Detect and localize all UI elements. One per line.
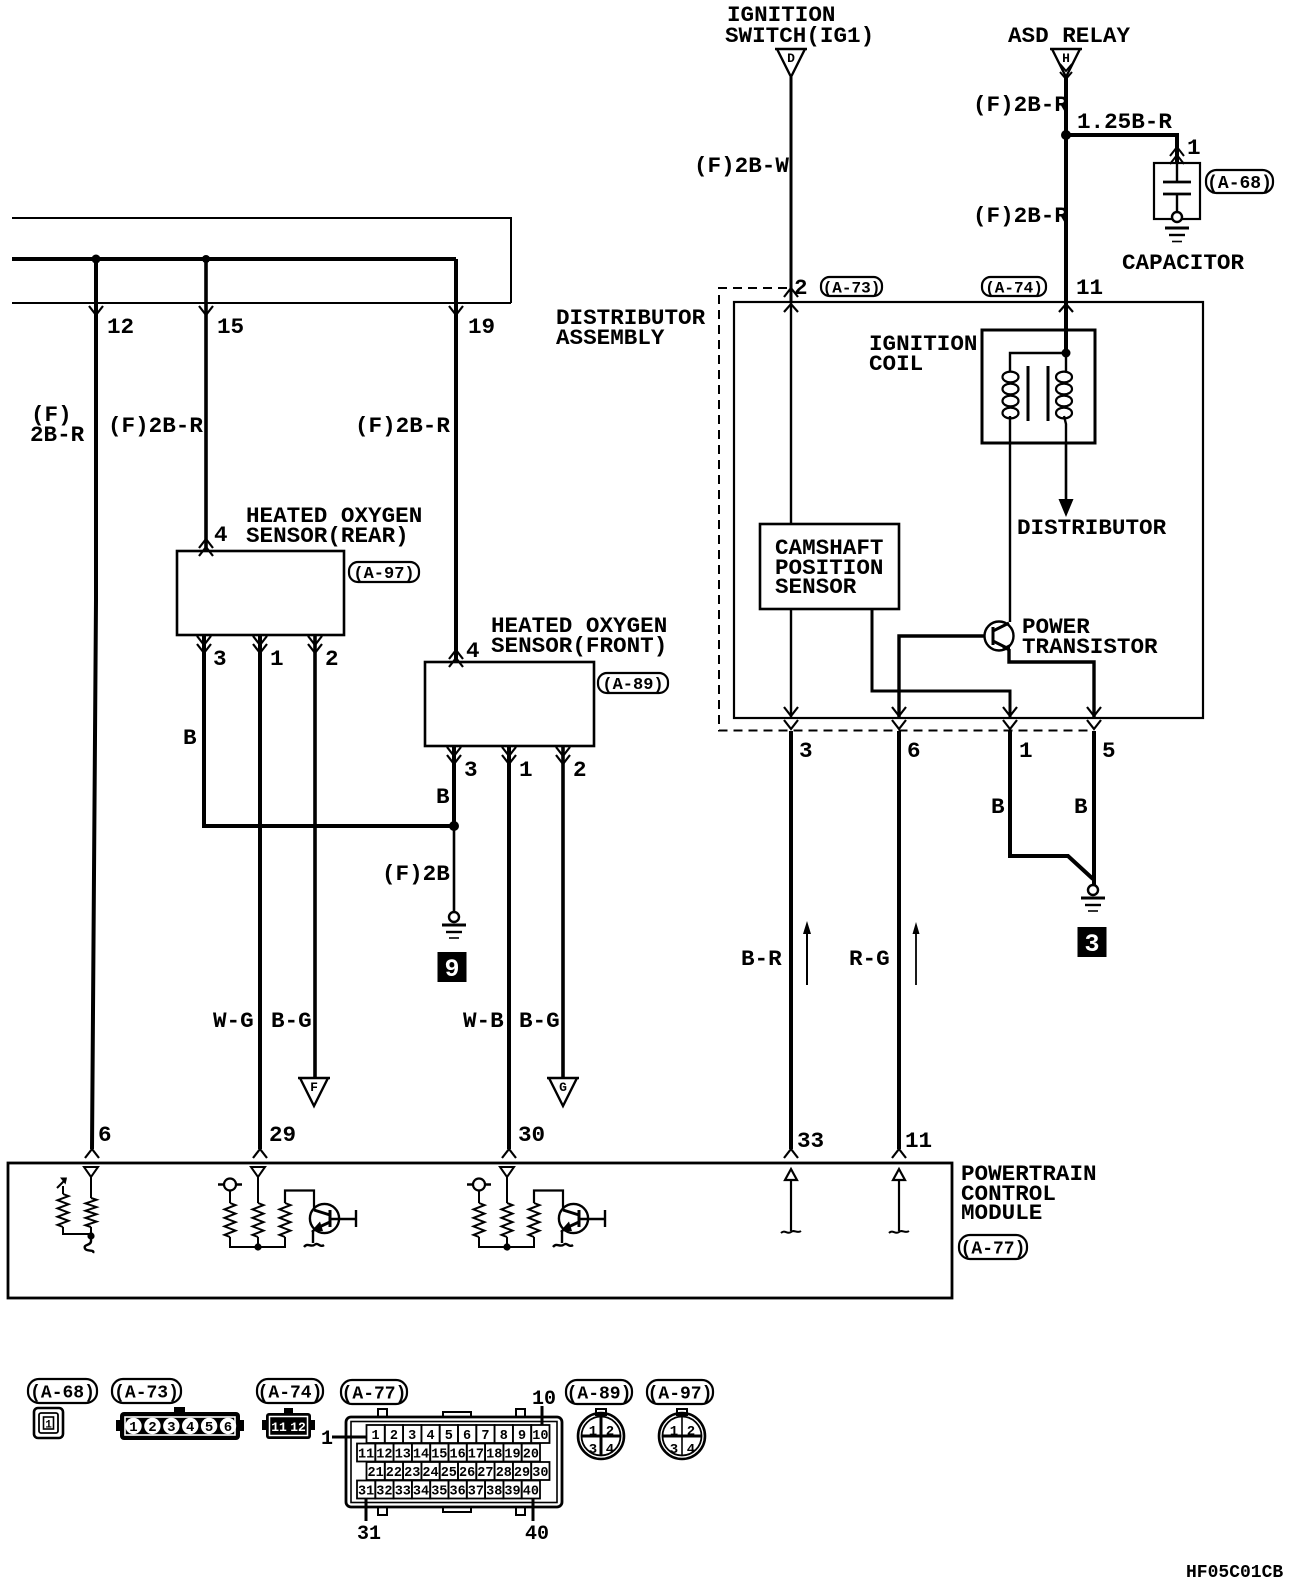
svg-text:SENSOR(REAR): SENSOR(REAR) [246, 523, 409, 549]
connector label A-73 bottom [112, 1379, 181, 1403]
node junction dot 29 [254, 1243, 261, 1250]
svg-text:6: 6 [98, 1122, 112, 1148]
connector triangle D ignition switch [775, 49, 807, 77]
svg-text:30: 30 [518, 1122, 545, 1148]
node junction dot B wires [449, 821, 459, 831]
svg-text:2: 2 [148, 1420, 156, 1436]
svg-text:SWITCH(IG1): SWITCH(IG1) [725, 23, 874, 49]
ground symbol 9 [442, 912, 466, 938]
svg-text:(A-73): (A-73) [823, 279, 881, 297]
PCM pin 29 internal triangle [251, 1167, 265, 1177]
node junction dot 30 [503, 1243, 510, 1250]
arrow at solid box bottom pin 5 [1087, 707, 1101, 716]
svg-text:1: 1 [321, 1428, 333, 1451]
svg-text:36: 36 [449, 1485, 465, 1500]
svg-text:B: B [1074, 794, 1088, 820]
svg-text:1: 1 [372, 1429, 380, 1444]
connector label A-77 bottom [341, 1380, 407, 1404]
arrow into PCM pin 30 [502, 1149, 516, 1158]
svg-text:(A-89): (A-89) [567, 1384, 632, 1404]
svg-text:B: B [991, 794, 1005, 820]
arrow on wire 15 below bus [199, 306, 213, 315]
svg-text:2: 2 [794, 275, 808, 301]
resistor R1 (PCM pin6 pull) [86, 1198, 97, 1227]
wire R-G pin 6 to PCM pin 11 [897, 731, 901, 1149]
ignition coil secondary winding [1065, 353, 1067, 372]
distributor assembly solid box [734, 302, 1203, 718]
wire rear pin 2 B-G to joint connector F [313, 635, 317, 1078]
svg-text:COIL: COIL [869, 351, 923, 377]
svg-text:MODULE: MODULE [961, 1200, 1042, 1226]
powertrain control module box [8, 1163, 952, 1298]
wire joining R1 R2 [63, 1227, 91, 1238]
svg-text:28: 28 [496, 1466, 512, 1481]
arrow double chevron at rear sensor pin 4 [199, 547, 213, 556]
svg-text:31: 31 [358, 1485, 374, 1500]
svg-text:16: 16 [449, 1448, 465, 1463]
transistor Q 30 base terminal [579, 1218, 605, 1220]
wire Rc to transistor collector 29 [285, 1191, 314, 1211]
wire resistor bottoms 29 [230, 1237, 285, 1247]
capacitor ground circle [1172, 212, 1182, 222]
svg-text:32: 32 [376, 1485, 392, 1500]
svg-text:R-G: R-G [849, 946, 890, 972]
arrow double chevron front pin 1 [502, 747, 516, 756]
svg-text:B: B [183, 725, 197, 751]
svg-text:30: 30 [532, 1466, 548, 1481]
PCM pin 30 wire [506, 1177, 508, 1203]
svg-text:3: 3 [408, 1429, 416, 1444]
PCM 30 circle wire [478, 1191, 480, 1204]
svg-text:(A-68): (A-68) [1207, 174, 1272, 194]
connector label A-74 bottom [257, 1379, 323, 1403]
svg-text:3: 3 [167, 1420, 175, 1436]
connector A-89 pinout [578, 1409, 624, 1459]
svg-text:20: 20 [523, 1448, 539, 1463]
svg-text:SENSOR: SENSOR [775, 574, 857, 600]
wire front pin 1 W-B to PCM pin 30 [507, 746, 511, 1149]
svg-text:1: 1 [129, 1420, 137, 1436]
svg-text:ASD RELAY: ASD RELAY [1008, 23, 1130, 49]
svg-text:10: 10 [532, 1429, 548, 1444]
svg-text:(A-77): (A-77) [961, 1239, 1026, 1259]
svg-text:31: 31 [357, 1523, 381, 1546]
svg-text:37: 37 [468, 1485, 484, 1500]
svg-text:W-G: W-G [213, 1008, 254, 1034]
distributor assembly dashed outline [719, 288, 1089, 731]
wire rear pin 3 black wire B to junction [204, 635, 454, 826]
power transistor Q1 circle [985, 622, 1014, 651]
svg-text:(F)2B-R: (F)2B-R [355, 413, 450, 439]
ignition coil box [982, 330, 1095, 443]
ground symbol below capacitor [1165, 227, 1189, 230]
svg-text:H: H [1062, 51, 1070, 66]
wire B pin 1 to ground [1010, 731, 1093, 879]
svg-text:19: 19 [504, 1448, 520, 1463]
svg-text:4: 4 [186, 1420, 194, 1436]
ground id box 9 [438, 952, 467, 984]
svg-text:38: 38 [486, 1485, 502, 1500]
svg-text:1: 1 [45, 1420, 52, 1432]
svg-text:33: 33 [395, 1485, 411, 1500]
svg-text:DISTRIBUTOR: DISTRIBUTOR [1017, 515, 1167, 541]
svg-text:ASSEMBLY: ASSEMBLY [556, 325, 665, 351]
svg-text:29: 29 [514, 1466, 530, 1481]
arrow double chevron at front sensor pin 4 [449, 658, 463, 667]
svg-text:12: 12 [107, 314, 134, 340]
wire resistor bottoms 30 [479, 1237, 534, 1247]
connector A-74 pinout [262, 1408, 315, 1439]
svg-text:40: 40 [523, 1485, 539, 1500]
svg-text:3: 3 [1084, 930, 1099, 959]
arrow into PCM pin 29 [253, 1149, 267, 1158]
direction arrow beside B-R wire [806, 932, 808, 985]
resistor Rb 29 [253, 1203, 264, 1237]
svg-text:HF05C01CB: HF05C01CB [1186, 1563, 1283, 1582]
svg-text:5: 5 [1102, 738, 1116, 764]
arrow at dashed outline pin 5 [1087, 720, 1101, 729]
arrow at distributor box top pin 11 [1059, 304, 1073, 312]
transistor Q 29 emitter arrow [317, 1222, 330, 1228]
wire B pin 5 to ground [1092, 731, 1096, 885]
wire coil secondary to distributor arrow [1065, 443, 1068, 501]
arrow double chevron rear pin 3 [197, 636, 211, 645]
wire camshaft sensor to pin 1 [872, 609, 1010, 718]
svg-text:F: F [310, 1080, 318, 1095]
svg-text:3: 3 [670, 1442, 678, 1458]
svg-text:3: 3 [464, 757, 478, 783]
ignition coil primary winding [1010, 353, 1066, 372]
svg-text:21: 21 [367, 1466, 383, 1481]
svg-text:3: 3 [589, 1442, 597, 1458]
ground symbol 3 [1081, 885, 1105, 911]
connector label A-77 PCM [959, 1235, 1027, 1259]
transistor Q 29 base terminal [330, 1218, 356, 1220]
wire B-R pin 3 to PCM pin 33 [789, 731, 793, 1149]
svg-text:9: 9 [518, 1429, 526, 1444]
svg-text:2: 2 [606, 1424, 614, 1440]
variable resistor R2 [62, 1186, 64, 1194]
connector A-68 pinout [34, 1408, 63, 1438]
connector triangle H ASD relay [1050, 49, 1082, 77]
connector A-77 pinout [346, 1409, 562, 1515]
resistor Rc 30 [529, 1203, 540, 1237]
wire ignition switch through camshaft sensor to pin 3 [790, 609, 792, 718]
svg-text:4: 4 [606, 1442, 614, 1458]
wire 19 (F)2B-R from bus corner to front oxygen sensor pin 4 [454, 259, 458, 662]
svg-text:27: 27 [477, 1466, 493, 1481]
arrow at solid box bottom pin 3 [784, 707, 798, 716]
transistor Q 29 circle [310, 1204, 339, 1233]
arrow double chevron below relay triangle [1060, 64, 1072, 71]
capacitor C1 box [1154, 163, 1200, 219]
PCM 29 sensor return circle symbol [218, 1183, 242, 1186]
wire coil primary to power transistor collector [1009, 443, 1011, 622]
svg-text:11: 11 [905, 1128, 932, 1154]
svg-text:13: 13 [395, 1448, 411, 1463]
arrow into PCM pin 6 [85, 1149, 99, 1158]
PCM 30 sensor return circle symbol [467, 1183, 491, 1186]
PCM pin internal arrow at x=899 [893, 1169, 905, 1180]
svg-text:2B-R: 2B-R [30, 422, 85, 448]
svg-text:TRANSISTOR: TRANSISTOR [1022, 634, 1158, 660]
svg-text:1: 1 [589, 1424, 597, 1440]
wire 1.25B-R to capacitor [1066, 135, 1177, 163]
transistor Q 30 base bar and collector [563, 1210, 579, 1215]
heated oxygen sensor rear box A-97 [177, 551, 344, 635]
power transistor symbol [992, 627, 995, 645]
transistor Q 30 circle [559, 1204, 588, 1233]
wire front pin 2 B-G to joint connector G [561, 746, 565, 1078]
svg-text:2: 2 [325, 646, 339, 672]
svg-text:5: 5 [445, 1429, 453, 1444]
direction arrow beside R-G wire [915, 932, 917, 985]
connector A-97 pinout [659, 1409, 705, 1459]
svg-text:(A-89): (A-89) [602, 676, 663, 695]
joint connector F triangle [298, 1078, 330, 1106]
svg-text:4: 4 [687, 1442, 695, 1458]
svg-text:(F)2B-R: (F)2B-R [973, 92, 1068, 118]
svg-text:12: 12 [376, 1448, 392, 1463]
arrow at distributor box top pin 2 [784, 304, 798, 312]
svg-text:(A-74): (A-74) [258, 1383, 323, 1403]
svg-text:(A-68): (A-68) [30, 1383, 95, 1403]
joint connector G triangle [547, 1078, 579, 1106]
svg-text:3: 3 [213, 646, 227, 672]
svg-text:18: 18 [486, 1448, 502, 1463]
arrow into PCM pin 11 [892, 1149, 906, 1158]
resistor Ra 30 [474, 1203, 485, 1237]
svg-text:B-G: B-G [519, 1008, 560, 1034]
svg-text:(F)2B-R: (F)2B-R [108, 413, 203, 439]
connector A-73 pinout [116, 1407, 244, 1440]
svg-text:11: 11 [358, 1448, 374, 1463]
svg-text:1: 1 [1019, 738, 1033, 764]
node junction dot on bus line 2 at x=206 [202, 255, 210, 263]
svg-text:(A-73): (A-73) [114, 1383, 179, 1403]
svg-text:1: 1 [1187, 135, 1201, 161]
svg-text:15: 15 [431, 1448, 447, 1463]
svg-text:10: 10 [532, 1388, 556, 1411]
connector label A-89 bottom [566, 1380, 632, 1404]
connector label A-97 bottom [647, 1380, 713, 1404]
svg-text:8: 8 [500, 1429, 508, 1444]
wire (F)2B-R from ASD relay to ignition coil pin 11 [1064, 77, 1068, 353]
svg-text:24: 24 [422, 1466, 438, 1481]
arrow at solid box bottom pin 1 [1003, 707, 1017, 716]
svg-text:26: 26 [459, 1466, 475, 1481]
svg-text:40: 40 [525, 1523, 549, 1546]
PCM pin 29 wire [257, 1177, 259, 1203]
arrowhead to distributor [1059, 499, 1074, 517]
svg-text:SENSOR(FRONT): SENSOR(FRONT) [491, 633, 667, 659]
svg-text:3: 3 [799, 738, 813, 764]
svg-text:7: 7 [481, 1429, 489, 1444]
node junction dot in coil [1062, 349, 1071, 358]
arrow double chevron rear pin 1 [253, 636, 267, 645]
svg-text:6: 6 [463, 1429, 471, 1444]
connector label A-68 [1206, 170, 1273, 194]
arrow on wire 12 below bus [89, 306, 103, 315]
svg-text:17: 17 [468, 1448, 484, 1463]
svg-text:B: B [436, 784, 450, 810]
transistor Q 29 emitter ground hook [304, 1230, 324, 1247]
connector label A-89 [598, 673, 668, 695]
node junction dot group1 [87, 1232, 94, 1239]
svg-text:(F)2B: (F)2B [382, 861, 450, 887]
arrow at dashed outline pin 3 [784, 720, 798, 729]
wire bus line 1 (top) [12, 218, 511, 303]
svg-text:6: 6 [224, 1420, 232, 1436]
svg-text:(F)2B-R: (F)2B-R [973, 203, 1068, 229]
resistor Ra 29 [225, 1203, 236, 1237]
svg-text:35: 35 [431, 1485, 447, 1500]
svg-text:CAPACITOR: CAPACITOR [1122, 250, 1244, 276]
svg-text:14: 14 [413, 1448, 429, 1463]
PCM 29 circle wire [229, 1191, 231, 1204]
connector label A-74 [982, 277, 1046, 297]
resistor Rc 29 [280, 1203, 291, 1237]
arrow on wire 19 below bus [449, 306, 463, 315]
svg-text:D: D [787, 51, 795, 66]
PCM pin 6 wire to resistors [90, 1177, 92, 1198]
ground id box 3 [1078, 927, 1107, 959]
svg-text:19: 19 [468, 314, 495, 340]
svg-text:29: 29 [269, 1122, 296, 1148]
transistor Q 30 emitter ground hook [553, 1230, 573, 1247]
wire Rc to transistor collector 30 [534, 1191, 563, 1211]
arrow double chevron front pin 2 [556, 747, 570, 756]
wire (F)2B-W from ignition switch to distributor pin 2 [790, 77, 793, 302]
heated oxygen sensor front box A-89 [425, 662, 594, 746]
wire bus line 2 (thick) [12, 257, 456, 261]
svg-text:(A-97): (A-97) [648, 1384, 713, 1404]
svg-text:G: G [559, 1080, 567, 1095]
svg-text:5: 5 [205, 1420, 213, 1436]
PCM pin internal arrow at x=791 [785, 1169, 797, 1180]
arrow into PCM pin 33 [784, 1149, 798, 1158]
svg-text:22: 22 [386, 1466, 402, 1481]
svg-text:4: 4 [466, 638, 480, 664]
svg-text:6: 6 [907, 738, 921, 764]
transistor Q 29 base bar and collector [314, 1210, 330, 1215]
connector label A-68 bottom [28, 1379, 97, 1403]
connector label A-97 [349, 562, 419, 584]
svg-text:(A-74): (A-74) [985, 279, 1043, 297]
PCM pin 6 internal triangle [84, 1167, 98, 1177]
svg-text:15: 15 [217, 314, 244, 340]
svg-text:(F)2B-W: (F)2B-W [694, 153, 789, 179]
capacitor C1 symbol [1176, 163, 1178, 182]
arrow double chevron rear pin 2 [308, 636, 322, 645]
wire 12 (F)2B-R from bus to PCM pin 6 [92, 259, 96, 1149]
wire front pin 3 black wire B down to ground [452, 746, 456, 826]
svg-text:(A-97): (A-97) [353, 565, 414, 584]
wire transistor emitter to pin 5 [1009, 649, 1094, 718]
camshaft position sensor box [760, 524, 899, 609]
svg-text:11: 11 [271, 1420, 287, 1435]
PCM pin 30 internal triangle [500, 1167, 514, 1177]
arrow at solid box bottom pin 6 [892, 707, 906, 716]
svg-text:4: 4 [214, 522, 228, 548]
arrow double chevron front pin 3 [447, 747, 461, 756]
svg-text:1: 1 [519, 757, 533, 783]
svg-text:12: 12 [290, 1420, 306, 1435]
ignition coil core bars [1027, 366, 1030, 421]
svg-text:34: 34 [413, 1485, 429, 1500]
arrow at dashed box crossing pin 2 [784, 288, 798, 297]
svg-text:9: 9 [444, 955, 459, 984]
transistor Q 30 emitter arrow [566, 1222, 579, 1228]
svg-text:25: 25 [441, 1466, 457, 1481]
svg-text:B-G: B-G [271, 1008, 312, 1034]
svg-text:33: 33 [797, 1128, 824, 1154]
node junction dot to capacitor [1061, 130, 1071, 140]
arrow double chevron capacitor pin 1 [1170, 147, 1184, 156]
svg-text:W-B: W-B [463, 1008, 504, 1034]
svg-text:(A-77): (A-77) [342, 1384, 407, 1404]
arrow at dashed outline pin 6 [892, 720, 906, 729]
svg-text:2: 2 [687, 1424, 695, 1440]
wire 15 (F)2B-R from bus to rear oxygen sensor pin 4 [204, 259, 208, 551]
svg-text:4: 4 [426, 1429, 434, 1444]
svg-text:1: 1 [670, 1424, 678, 1440]
svg-text:1: 1 [270, 646, 284, 672]
variable resistor R2 arrow [57, 1179, 66, 1188]
svg-text:23: 23 [404, 1466, 420, 1481]
connector label A-73 [821, 277, 882, 297]
wire transistor base from pin 6 [899, 636, 985, 718]
svg-text:B-R: B-R [741, 946, 782, 972]
svg-text:39: 39 [504, 1485, 520, 1500]
svg-text:2: 2 [390, 1429, 398, 1444]
node junction dot on bus line 2 at x=96 [92, 255, 101, 264]
wire hook group1 [85, 1238, 94, 1253]
arrow at dashed outline pin 1 [1003, 720, 1017, 729]
svg-text:11: 11 [1076, 275, 1103, 301]
svg-text:2: 2 [573, 757, 587, 783]
wire bus line 3 (bottom) [12, 302, 511, 304]
resistor Rb 30 [502, 1203, 513, 1237]
wire rear pin 1 W-G to PCM pin 29 [258, 635, 262, 1149]
svg-text:1.25B-R: 1.25B-R [1077, 109, 1172, 135]
